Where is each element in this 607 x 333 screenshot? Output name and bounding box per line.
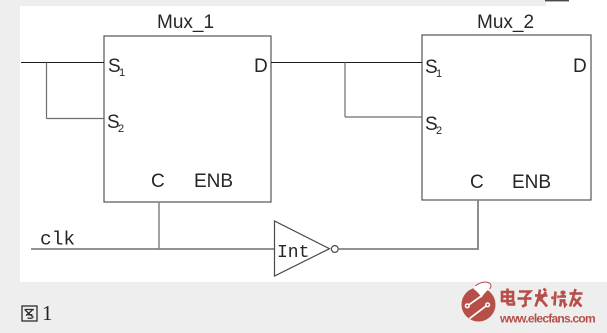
svg-text:Int: Int: [277, 243, 309, 263]
net label clk: [40, 229, 75, 251]
svg-text:ENB: ENB: [512, 172, 551, 193]
U3 output bubble: [331, 246, 338, 253]
svg-text:C: C: [151, 171, 165, 192]
wire branch vertical to U1 S2: [46, 63, 48, 119]
wire U3 output to U2 C: [338, 248, 478, 250]
watermark url text: [499, 312, 595, 326]
caption figure 1 (图 1): [22, 301, 53, 325]
U1 pin label S1: [108, 56, 125, 79]
U2 pin label S1: [425, 57, 442, 80]
svg-text:2: 2: [436, 125, 442, 137]
U2 pin label C: [470, 172, 484, 193]
mux U1 "Mux_1" box: [104, 36, 271, 202]
svg-text:Mux_1: Mux_1: [157, 12, 214, 33]
mux U2 label "Mux_2": [477, 12, 534, 33]
watermark brand text (dian zi fa shao you): [502, 289, 583, 307]
U2 pin label ENB: [512, 172, 551, 193]
电: [502, 292, 513, 301]
wire U1 D to U2 S1: [271, 62, 422, 64]
svg-text:1: 1: [436, 68, 442, 80]
inverter U3 triangle: [275, 221, 330, 276]
U2 pin label D: [573, 56, 587, 77]
svg-text:C: C: [470, 172, 484, 193]
svg-text:1: 1: [42, 301, 53, 325]
mux U2 "Mux_2" box: [422, 35, 591, 200]
U2 pin label S2: [425, 114, 442, 137]
烧: [555, 292, 556, 306]
U3 label "Int": [277, 243, 309, 263]
U1 pin label C: [151, 171, 165, 192]
wire input to U1 S1: [21, 62, 104, 64]
svg-text:1: 1: [119, 67, 125, 79]
U1 pin label ENB: [194, 171, 233, 192]
wire U1 C vertical: [158, 202, 160, 249]
wire into U1 S2: [47, 118, 105, 120]
wire U2 C vertical: [477, 200, 479, 250]
svg-text:D: D: [254, 56, 268, 77]
svg-text:Mux_2: Mux_2: [477, 12, 534, 33]
友: [570, 292, 583, 295]
svg-text:D: D: [573, 56, 587, 77]
U1 pin label D: [254, 56, 268, 77]
svg-text:clk: clk: [40, 229, 75, 251]
wire clk horizontal: [31, 248, 274, 250]
U1 pin label S2: [107, 112, 124, 135]
wire branch vertical to U2 S2: [344, 63, 346, 118]
wire into U2 S2: [345, 116, 422, 118]
mux U1 label "Mux_1": [157, 12, 214, 33]
子: [519, 292, 530, 297]
svg-text:www.elecfans.com: www.elecfans.com: [499, 312, 595, 326]
watermark logo circle: [462, 282, 496, 321]
发: [535, 294, 548, 297]
svg-text:2: 2: [118, 123, 124, 135]
svg-text:ENB: ENB: [194, 171, 233, 192]
